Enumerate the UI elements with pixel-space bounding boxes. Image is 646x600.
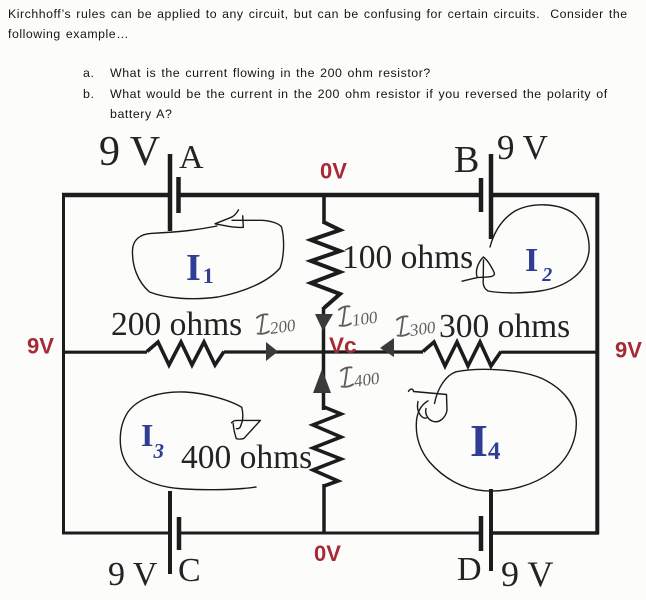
svg-text:300 ohms: 300 ohms	[439, 308, 570, 345]
label I400 (handwritten branch current)	[339, 363, 381, 392]
battery B short plate	[479, 178, 484, 212]
wire: top right segment	[493, 193, 599, 198]
svg-text:9 V: 9 V	[497, 128, 548, 167]
svg-text:9V: 9V	[27, 334, 54, 359]
svg-text:D: D	[457, 551, 482, 588]
svg-text:9 V: 9 V	[501, 554, 553, 594]
wire: middle right-center (node Vc to 300 ohm)	[322, 350, 423, 353]
battery D short plate	[479, 516, 484, 551]
battery A long plate	[168, 154, 173, 231]
svg-text:400: 400	[353, 369, 381, 391]
wire: middle right (300 ohm to 9V)	[501, 351, 599, 354]
resistor 400 ohms zigzag	[313, 407, 341, 486]
svg-text:Vc: Vc	[329, 333, 357, 358]
svg-text:9 V: 9 V	[99, 129, 160, 175]
svg-text:0V: 0V	[320, 159, 347, 184]
arrowhead of loop I2	[462, 257, 494, 281]
svg-text:300: 300	[408, 318, 437, 341]
loop arrow I1 (hand-drawn blob)	[132, 220, 283, 298]
wire: center vertical bottom stub	[322, 484, 326, 534]
wire: middle left (9V to 200 ohm)	[62, 351, 147, 354]
resistor 100 ohms zigzag	[311, 222, 340, 308]
wire: center vertical between node Vc and 400 ohm	[322, 351, 326, 410]
wire: center vertical top stub	[322, 193, 326, 224]
resistor 200 ohms zigzag	[147, 342, 224, 365]
label I300 (handwritten branch current)	[395, 312, 437, 341]
wire: right edge	[595, 193, 599, 534]
svg-text:A: A	[179, 139, 204, 176]
paragraph: Kirchhoff intro	[8, 4, 646, 44]
battery D long plate	[489, 489, 493, 571]
svg-text:I3: I3	[141, 417, 164, 463]
wire: left edge	[62, 194, 65, 534]
wire: center vertical between 100 ohm and node Vc	[322, 307, 326, 352]
wire: bottom left segment	[62, 532, 168, 535]
svg-text:I4: I4	[470, 415, 501, 466]
svg-text:200: 200	[269, 316, 297, 338]
svg-text:100: 100	[351, 308, 379, 330]
loop arrow I3 (hand-drawn blob)	[120, 392, 256, 490]
svg-text:9 V: 9 V	[108, 556, 158, 593]
svg-text:100 ohms: 100 ohms	[342, 239, 473, 276]
svg-text:I1: I1	[186, 247, 214, 289]
svg-text:I2: I2	[525, 242, 552, 286]
arrow I300 (left)	[380, 338, 394, 357]
wire: top left segment	[62, 193, 168, 198]
arrowhead of loop I3	[232, 407, 261, 439]
battery B long plate	[489, 154, 494, 239]
loop arrow I4 (hand-drawn blob)	[416, 369, 576, 491]
label I200 (handwritten branch current)	[255, 310, 297, 339]
arrow I200 (right)	[266, 342, 278, 361]
svg-text:9V: 9V	[615, 338, 642, 363]
question list a/b	[83, 63, 608, 125]
svg-text:B: B	[454, 139, 479, 181]
svg-text:C: C	[178, 552, 201, 589]
wire: top middle segment	[180, 193, 479, 198]
svg-text:400 ohms: 400 ohms	[181, 439, 312, 476]
svg-text:0V: 0V	[314, 541, 341, 566]
arrowhead of loop I4	[409, 389, 448, 422]
arrow I400 (up)	[313, 369, 331, 393]
wire: bottom middle segment	[181, 532, 479, 535]
label I100 (handwritten branch current)	[337, 302, 379, 331]
loop arrow I2 (hand-drawn blob)	[483, 205, 589, 293]
wire: middle left-center (200 ohm to node Vc)	[224, 350, 325, 353]
battery A short plate	[176, 177, 181, 213]
wire: bottom right segment	[493, 531, 599, 534]
battery C long plate	[168, 491, 172, 574]
resistor 300 ohms zigzag	[423, 342, 501, 366]
svg-text:200 ohms: 200 ohms	[111, 306, 242, 343]
arrowhead of loop I1	[215, 210, 243, 228]
arrow I100 (down)	[315, 314, 333, 331]
battery C short plate	[177, 517, 182, 550]
